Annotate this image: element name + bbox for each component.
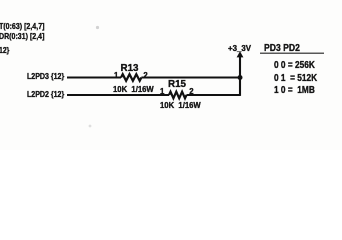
scan speckle [89, 125, 92, 128]
resistor R13 pin 2 [143, 71, 147, 80]
net label clipped: DR(0:31) [2,4] [0, 31, 44, 41]
resistor R13 value 10K 1/16W [113, 84, 154, 94]
wire L2PD3 left segment [67, 76, 121, 78]
resistor R15 pin 2 [189, 87, 193, 96]
wire vertical riser to +3.3V [239, 55, 241, 96]
resistor R13 pin 1 [114, 71, 118, 80]
wire L2PD2 left segment [67, 94, 169, 96]
scan speckle [96, 26, 99, 29]
table row 0 1 = 512K [274, 73, 317, 84]
table row 1 0 = 1MB [274, 85, 315, 96]
power arrowhead +3.3V [237, 51, 244, 57]
resistor R15 value 10K 1/16W [160, 100, 201, 110]
table row 0 0 = 256K [274, 60, 315, 71]
net label clipped: T(0:63) [2,4,7] [0, 21, 44, 31]
table header PD3 PD2 [264, 42, 300, 54]
power net +3_3V label [228, 43, 251, 53]
wire R15 to corner [187, 94, 241, 96]
net label clipped: 12) [0, 46, 9, 55]
resistor R13 body (zigzag) [121, 74, 141, 81]
wire R13 to +3.3V node [141, 76, 240, 78]
resistor R15 reference label [168, 79, 186, 90]
node L2PD2 label [27, 89, 64, 99]
resistor R15 pin 1 [160, 87, 164, 96]
node L2PD3 label [27, 71, 64, 81]
resistor R15 body (zigzag) [169, 92, 187, 99]
resistor R13 reference label [121, 63, 139, 74]
table header underline [260, 52, 324, 54]
junction dot at node [238, 75, 243, 80]
